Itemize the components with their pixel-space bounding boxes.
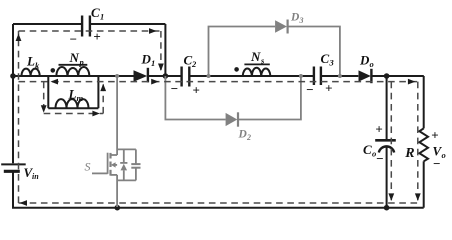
svg-text:+: + [431,128,438,143]
svg-text:−: − [171,81,178,96]
svg-text:L: L [68,87,77,102]
svg-text:p: p [79,57,84,67]
svg-text:D: D [238,129,248,141]
svg-text:o: o [370,59,374,69]
svg-text:+: + [192,83,199,98]
svg-text:+: + [325,81,332,96]
svg-text:s: s [260,56,265,66]
svg-text:D: D [359,53,370,68]
svg-text:3: 3 [299,16,304,25]
svg-text:m: m [77,93,84,103]
svg-text:D: D [290,12,300,24]
svg-text:1: 1 [151,58,155,68]
svg-text:+: + [375,122,382,137]
svg-text:3: 3 [329,58,335,68]
svg-text:N: N [250,49,261,64]
svg-text:S: S [85,160,91,174]
svg-text:N: N [69,50,80,65]
svg-text:o: o [442,150,446,160]
svg-text:L: L [26,54,35,69]
svg-text:C: C [91,5,100,20]
svg-text:C: C [363,142,372,157]
svg-text:−: − [376,151,383,166]
svg-text:+: + [93,29,100,44]
svg-text:D: D [141,52,152,67]
svg-text:−: − [306,82,313,97]
svg-text:−: − [70,32,77,47]
svg-text:in: in [32,172,39,181]
svg-text:1: 1 [100,12,104,22]
svg-text:C: C [321,51,330,66]
svg-text:2: 2 [246,133,251,142]
svg-text:R: R [404,146,414,161]
svg-text:−: − [433,156,440,171]
svg-text:2: 2 [191,59,197,69]
